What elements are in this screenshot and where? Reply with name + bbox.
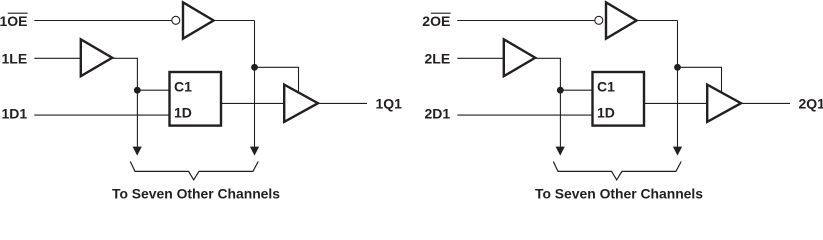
- svg-text:1D: 1D: [174, 105, 192, 121]
- wire LE buffer output horizontal (ch2): [535, 57, 561, 59]
- inverter bubble (2OE): [595, 16, 603, 24]
- svg-text:2LE: 2LE: [425, 51, 451, 67]
- wire LE rail vertical down (ch2): [559, 58, 561, 147]
- latch box channel 1: [170, 72, 222, 126]
- brace channel 1: [130, 162, 258, 180]
- wire 1OE to inverter bubble: [34, 20, 171, 22]
- junction dot OE rail (ch2): [674, 64, 681, 71]
- wire OE rail vertical down: [254, 21, 256, 148]
- svg-text:C1: C1: [597, 79, 615, 95]
- wire LE rail vertical down: [136, 58, 138, 147]
- wire latch output to output buffer (ch2): [644, 102, 708, 104]
- wire output buffer to 2Q1: [741, 102, 790, 104]
- svg-text:2OE: 2OE: [422, 13, 450, 29]
- junction dot OE rail: [251, 64, 258, 71]
- inverter triangle (2OE buffer): [606, 2, 637, 38]
- wire 2D1 to latch D input: [457, 114, 593, 116]
- svg-text:2Q1: 2Q1: [799, 96, 823, 112]
- wire LE buffer output horizontal: [112, 57, 138, 59]
- svg-text:1LE: 1LE: [2, 51, 28, 67]
- svg-text:1OE: 1OE: [0, 13, 28, 29]
- inverter bubble (1OE): [172, 16, 180, 24]
- wire LE dot to latch C1 input: [137, 89, 170, 91]
- svg-text:C1: C1: [174, 79, 192, 95]
- wire latch output to output buffer: [221, 102, 285, 104]
- arrowhead OE rail: [250, 147, 259, 156]
- wire output buffer to 1Q1: [318, 102, 367, 104]
- svg-text:1D: 1D: [597, 105, 615, 121]
- output buffer triangle channel 1: [284, 85, 318, 122]
- svg-text:To Seven Other Channels: To Seven Other Channels: [535, 186, 703, 200]
- wire 2OE to inverter bubble: [457, 20, 594, 22]
- arrowhead OE rail (ch2): [673, 147, 682, 156]
- wire OE dot to output-buffer enable: [255, 67, 299, 92]
- svg-text:1D1: 1D1: [2, 105, 28, 121]
- output buffer triangle channel 2: [707, 85, 741, 122]
- wire OE rail vertical down (ch2): [677, 21, 679, 148]
- svg-text:1Q1: 1Q1: [376, 96, 403, 112]
- wire inverter output horizontal: [214, 20, 255, 22]
- wire 1D1 to latch D input: [34, 114, 170, 116]
- latch box channel 2: [593, 72, 645, 126]
- label 2OE (active-low output enable): [422, 13, 450, 29]
- wire 1LE to buffer: [34, 57, 80, 59]
- junction dot LE rail: [134, 87, 141, 94]
- junction dot LE rail (ch2): [557, 87, 564, 94]
- LE buffer triangle: [81, 39, 112, 76]
- inverter triangle (1OE buffer): [183, 2, 214, 38]
- svg-text:2D1: 2D1: [425, 105, 451, 121]
- arrowhead LE rail: [133, 147, 142, 156]
- arrowhead LE rail (ch2): [556, 147, 565, 156]
- brace channel 2: [553, 162, 681, 180]
- wire OE dot to output-buffer enable (ch2): [678, 67, 722, 92]
- wire 2LE to buffer: [457, 57, 503, 59]
- svg-text:To Seven Other Channels: To Seven Other Channels: [112, 186, 280, 200]
- wire LE dot to latch C1 input (ch2): [560, 89, 593, 91]
- wire inverter output horizontal (ch2): [637, 20, 678, 22]
- label 1OE (active-low output enable): [0, 13, 28, 29]
- LE buffer triangle (ch2): [504, 39, 535, 76]
